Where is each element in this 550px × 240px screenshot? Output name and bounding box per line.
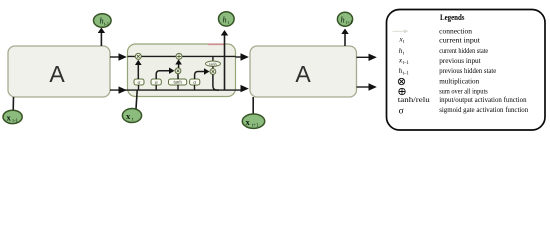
svg-text:x: x xyxy=(7,112,12,122)
svg-text:current hidden state: current hidden state xyxy=(439,46,488,55)
wire h(t) up from cell xyxy=(221,30,228,90)
gate sigma 3 (output) xyxy=(190,79,200,86)
arrow sigma1 up to multiply node xyxy=(135,60,142,79)
wire x(t-1) to A-left xyxy=(12,97,14,111)
svg-text:previous hidden state: previous hidden state xyxy=(439,66,496,75)
svg-text:t+1: t+1 xyxy=(252,123,259,128)
wire tanh box up to multiply2 xyxy=(177,74,179,79)
wire x(t+1) to A-right xyxy=(252,97,254,115)
wire cell-state line xyxy=(128,55,236,57)
arrow sigma3 elbow to multiply node 3 xyxy=(195,68,210,79)
legend row tanh/relu xyxy=(398,95,527,104)
legend row sigma xyxy=(399,105,529,117)
svg-text:t-1: t-1 xyxy=(13,119,19,124)
svg-text:h: h xyxy=(341,16,345,25)
node x(t+1) xyxy=(242,114,264,128)
svg-text:sum over all inputs: sum over all inputs xyxy=(439,86,488,95)
LSTM block A (right) xyxy=(250,46,357,97)
arrow multiply2 up to add node xyxy=(175,59,182,68)
LSTM cell (middle, detailed) xyxy=(128,44,236,97)
svg-text:multiplication: multiplication xyxy=(439,77,479,86)
legend row x(t-1) xyxy=(398,56,481,66)
wire tanh stub down xyxy=(177,85,179,90)
arrow sigma2 elbow to multiply node 2 xyxy=(156,68,174,80)
svg-text:previous input: previous input xyxy=(439,56,481,65)
svg-text:connection: connection xyxy=(439,26,472,35)
wire sigma3 stub down xyxy=(194,85,196,90)
node x(t) xyxy=(122,109,141,123)
svg-text:t–1: t–1 xyxy=(403,61,410,66)
node h(t) xyxy=(219,12,235,26)
gate sigma 2 (input) xyxy=(151,79,161,86)
arrow A-left to cell (bottom) xyxy=(119,86,127,93)
svg-text:σ: σ xyxy=(399,107,404,117)
arrow cell to A-right (top) xyxy=(236,53,249,60)
wire h-line bottom xyxy=(110,89,242,91)
legend row multiply xyxy=(398,77,479,86)
node multiply (forget) on cell line xyxy=(135,53,141,59)
wire h(t-1) up from A-left xyxy=(98,28,105,47)
wire sigma1 stub down xyxy=(138,85,140,90)
svg-text:tanh/relu: tanh/relu xyxy=(398,95,430,104)
svg-text:x: x xyxy=(126,111,131,121)
svg-text:t+1: t+1 xyxy=(346,21,353,26)
wire sigma2 stub down xyxy=(155,85,157,90)
svg-text:t-1: t-1 xyxy=(104,22,110,27)
svg-text:A: A xyxy=(295,61,311,87)
red top segment of cell border xyxy=(208,43,225,45)
tanh ellipse (output activation) xyxy=(206,61,221,66)
node x(t-1) xyxy=(3,110,22,124)
arrow A-right output (top) xyxy=(357,54,377,61)
svg-text:tanh: tanh xyxy=(173,81,182,86)
node multiply 2 (input x candidate) xyxy=(175,68,181,74)
arrow tanh down to multiply node 3 xyxy=(212,66,214,68)
svg-text:h: h xyxy=(223,15,227,24)
arrow cell to A-right (bottom) xyxy=(241,85,249,92)
svg-text:current input: current input xyxy=(439,36,480,45)
legend row h(t) xyxy=(399,46,488,56)
wire multiply3 down-right elbow to h line xyxy=(213,74,219,90)
node h(t-1) xyxy=(94,14,112,28)
svg-text:tanh: tanh xyxy=(209,61,217,66)
svg-text:Legends: Legends xyxy=(440,13,465,22)
wire h(t+1) up from A-right xyxy=(341,29,348,47)
LSTM block A (left) xyxy=(8,46,110,97)
node add on cell line xyxy=(176,53,182,59)
gate tanh (candidate) xyxy=(169,79,187,86)
svg-text:A: A xyxy=(49,61,65,87)
legend row x(t) xyxy=(399,35,481,45)
svg-text:t–1: t–1 xyxy=(403,72,410,77)
wire cell line down to tanh ellipse xyxy=(212,56,214,61)
arrow A-right output (bottom) xyxy=(357,83,377,90)
wire x(t) to cell xyxy=(136,90,137,109)
node h(t+1) xyxy=(337,12,353,26)
svg-text:x: x xyxy=(246,117,251,127)
svg-text:sigmoid gate activation functi: sigmoid gate activation function xyxy=(439,105,528,114)
svg-text:input/output activation functi: input/output activation function xyxy=(439,95,527,104)
gate sigma 1 (forget) xyxy=(134,79,144,86)
node multiply 3 (output) xyxy=(210,69,216,75)
legend row h(t-1) xyxy=(399,66,497,77)
arrow A-left to cell (top) xyxy=(110,53,127,60)
legend row add xyxy=(399,86,488,95)
legend box xyxy=(387,10,546,131)
legend row connection xyxy=(393,26,473,35)
